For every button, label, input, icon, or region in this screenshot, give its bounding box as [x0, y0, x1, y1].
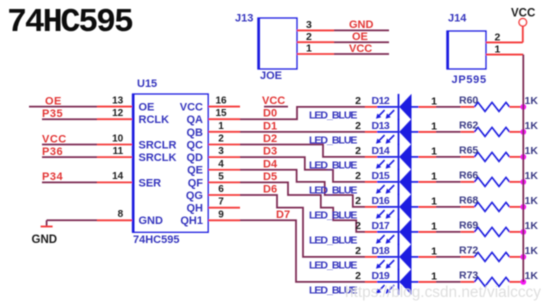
- svg-text:QC: QC: [187, 139, 204, 151]
- svg-text:GND: GND: [32, 234, 58, 246]
- svg-text:VCC: VCC: [42, 133, 67, 145]
- svg-text:D15: D15: [372, 170, 390, 182]
- svg-text:2: 2: [355, 120, 361, 132]
- svg-text:R68: R68: [459, 194, 478, 206]
- svg-text:2: 2: [355, 195, 361, 207]
- svg-text:GND: GND: [139, 215, 164, 227]
- svg-text:1: 1: [306, 43, 312, 55]
- svg-text:2: 2: [355, 170, 361, 182]
- svg-text:QD: QD: [187, 152, 204, 164]
- svg-text:LED_BLUE: LED_BLUE: [309, 109, 357, 121]
- svg-text:QH1: QH1: [180, 215, 203, 227]
- svg-text:2: 2: [355, 145, 361, 157]
- svg-text:R73: R73: [459, 269, 478, 281]
- svg-text:VCC: VCC: [349, 43, 372, 55]
- svg-text:OE: OE: [352, 31, 368, 43]
- svg-text:1: 1: [431, 195, 437, 207]
- svg-text:2: 2: [355, 270, 361, 282]
- svg-text:QH: QH: [187, 203, 204, 215]
- svg-text:3: 3: [306, 19, 312, 31]
- svg-text:J13: J13: [235, 13, 253, 25]
- svg-text:D7: D7: [276, 209, 290, 221]
- svg-text:QG: QG: [186, 190, 203, 202]
- svg-text:P34: P34: [42, 171, 63, 183]
- svg-text:D19: D19: [372, 270, 390, 282]
- svg-text:R72: R72: [459, 244, 478, 256]
- svg-text:https://blog.csdn.net/vialcccy: https://blog.csdn.net/vialcccy: [345, 284, 541, 301]
- svg-text:P36: P36: [42, 146, 63, 158]
- svg-text:1: 1: [431, 120, 437, 132]
- svg-text:8: 8: [118, 209, 124, 220]
- svg-text:D1: D1: [263, 120, 277, 132]
- svg-text:2: 2: [306, 31, 312, 43]
- svg-text:9: 9: [218, 209, 224, 220]
- svg-text:1K: 1K: [525, 220, 539, 232]
- svg-text:R69: R69: [459, 219, 478, 231]
- svg-text:1: 1: [431, 270, 437, 282]
- svg-text:R66: R66: [459, 169, 478, 181]
- svg-text:QF: QF: [188, 177, 204, 189]
- svg-text:D0: D0: [263, 108, 277, 120]
- svg-text:D13: D13: [372, 120, 390, 132]
- svg-text:1: 1: [218, 121, 224, 132]
- svg-text:1K: 1K: [525, 195, 539, 207]
- svg-text:1K: 1K: [525, 270, 539, 282]
- svg-text:1: 1: [431, 170, 437, 182]
- svg-text:D18: D18: [372, 245, 390, 257]
- svg-text:P35: P35: [42, 108, 63, 120]
- svg-text:U15: U15: [137, 78, 157, 90]
- svg-text:15: 15: [215, 108, 227, 119]
- svg-text:1K: 1K: [525, 170, 539, 182]
- svg-text:7: 7: [218, 197, 224, 208]
- svg-text:QE: QE: [187, 165, 203, 177]
- svg-text:12: 12: [112, 108, 124, 119]
- svg-text:JP595: JP595: [452, 74, 487, 86]
- svg-text:74HC595: 74HC595: [133, 234, 179, 246]
- svg-text:R60: R60: [459, 94, 478, 106]
- svg-text:5: 5: [218, 171, 224, 182]
- svg-text:R62: R62: [459, 119, 478, 131]
- svg-text:1K: 1K: [525, 245, 539, 257]
- svg-text:D5: D5: [263, 171, 277, 183]
- svg-text:LED_BLUE: LED_BLUE: [309, 134, 357, 146]
- svg-text:GND: GND: [349, 19, 374, 31]
- svg-text:LED_BLUE: LED_BLUE: [309, 184, 357, 196]
- svg-text:D3: D3: [263, 146, 277, 158]
- svg-text:VCC: VCC: [262, 95, 285, 107]
- svg-text:11: 11: [113, 146, 124, 157]
- svg-text:1: 1: [431, 145, 437, 157]
- svg-text:1K: 1K: [525, 95, 539, 107]
- svg-text:OE: OE: [139, 102, 155, 114]
- svg-text:1K: 1K: [525, 145, 539, 157]
- svg-text:R65: R65: [459, 144, 478, 156]
- svg-text:14: 14: [112, 171, 124, 182]
- svg-text:2: 2: [355, 95, 361, 107]
- svg-text:1: 1: [431, 220, 437, 232]
- svg-text:SRCLK: SRCLK: [139, 152, 177, 164]
- svg-text:1K: 1K: [525, 120, 539, 132]
- svg-text:VCC: VCC: [180, 102, 203, 114]
- svg-text:D14: D14: [372, 145, 390, 157]
- svg-text:D6: D6: [263, 184, 277, 196]
- svg-text:QA: QA: [187, 114, 204, 126]
- svg-text:2: 2: [355, 245, 361, 257]
- svg-text:LED_BLUE: LED_BLUE: [309, 209, 357, 221]
- svg-text:RCLK: RCLK: [139, 114, 170, 126]
- svg-text:D12: D12: [372, 95, 390, 107]
- svg-text:SER: SER: [139, 177, 162, 189]
- svg-text:16: 16: [215, 96, 227, 107]
- svg-text:10: 10: [112, 133, 124, 144]
- svg-text:QB: QB: [187, 127, 204, 139]
- svg-text:2: 2: [218, 133, 224, 144]
- svg-text:74HC595: 74HC595: [7, 4, 133, 42]
- svg-text:13: 13: [112, 95, 124, 106]
- svg-text:4: 4: [218, 159, 224, 170]
- svg-text:D4: D4: [263, 158, 278, 170]
- svg-text:D17: D17: [372, 220, 390, 232]
- svg-text:2: 2: [355, 220, 361, 232]
- svg-text:1: 1: [431, 95, 437, 107]
- svg-text:VCC: VCC: [511, 8, 535, 20]
- svg-text:1: 1: [431, 245, 437, 257]
- svg-text:D2: D2: [263, 133, 277, 145]
- svg-text:D16: D16: [372, 195, 390, 207]
- svg-text:LED_BLUE: LED_BLUE: [309, 159, 357, 171]
- svg-text:3: 3: [218, 146, 224, 157]
- svg-text:SRCLR: SRCLR: [139, 139, 177, 151]
- svg-text:LED_BLUE: LED_BLUE: [309, 234, 357, 246]
- svg-text:J14: J14: [448, 13, 467, 25]
- svg-text:6: 6: [218, 184, 224, 195]
- svg-text:OE: OE: [45, 95, 62, 107]
- svg-text:JOE: JOE: [260, 70, 282, 82]
- svg-text:LED_BLUE: LED_BLUE: [309, 259, 357, 271]
